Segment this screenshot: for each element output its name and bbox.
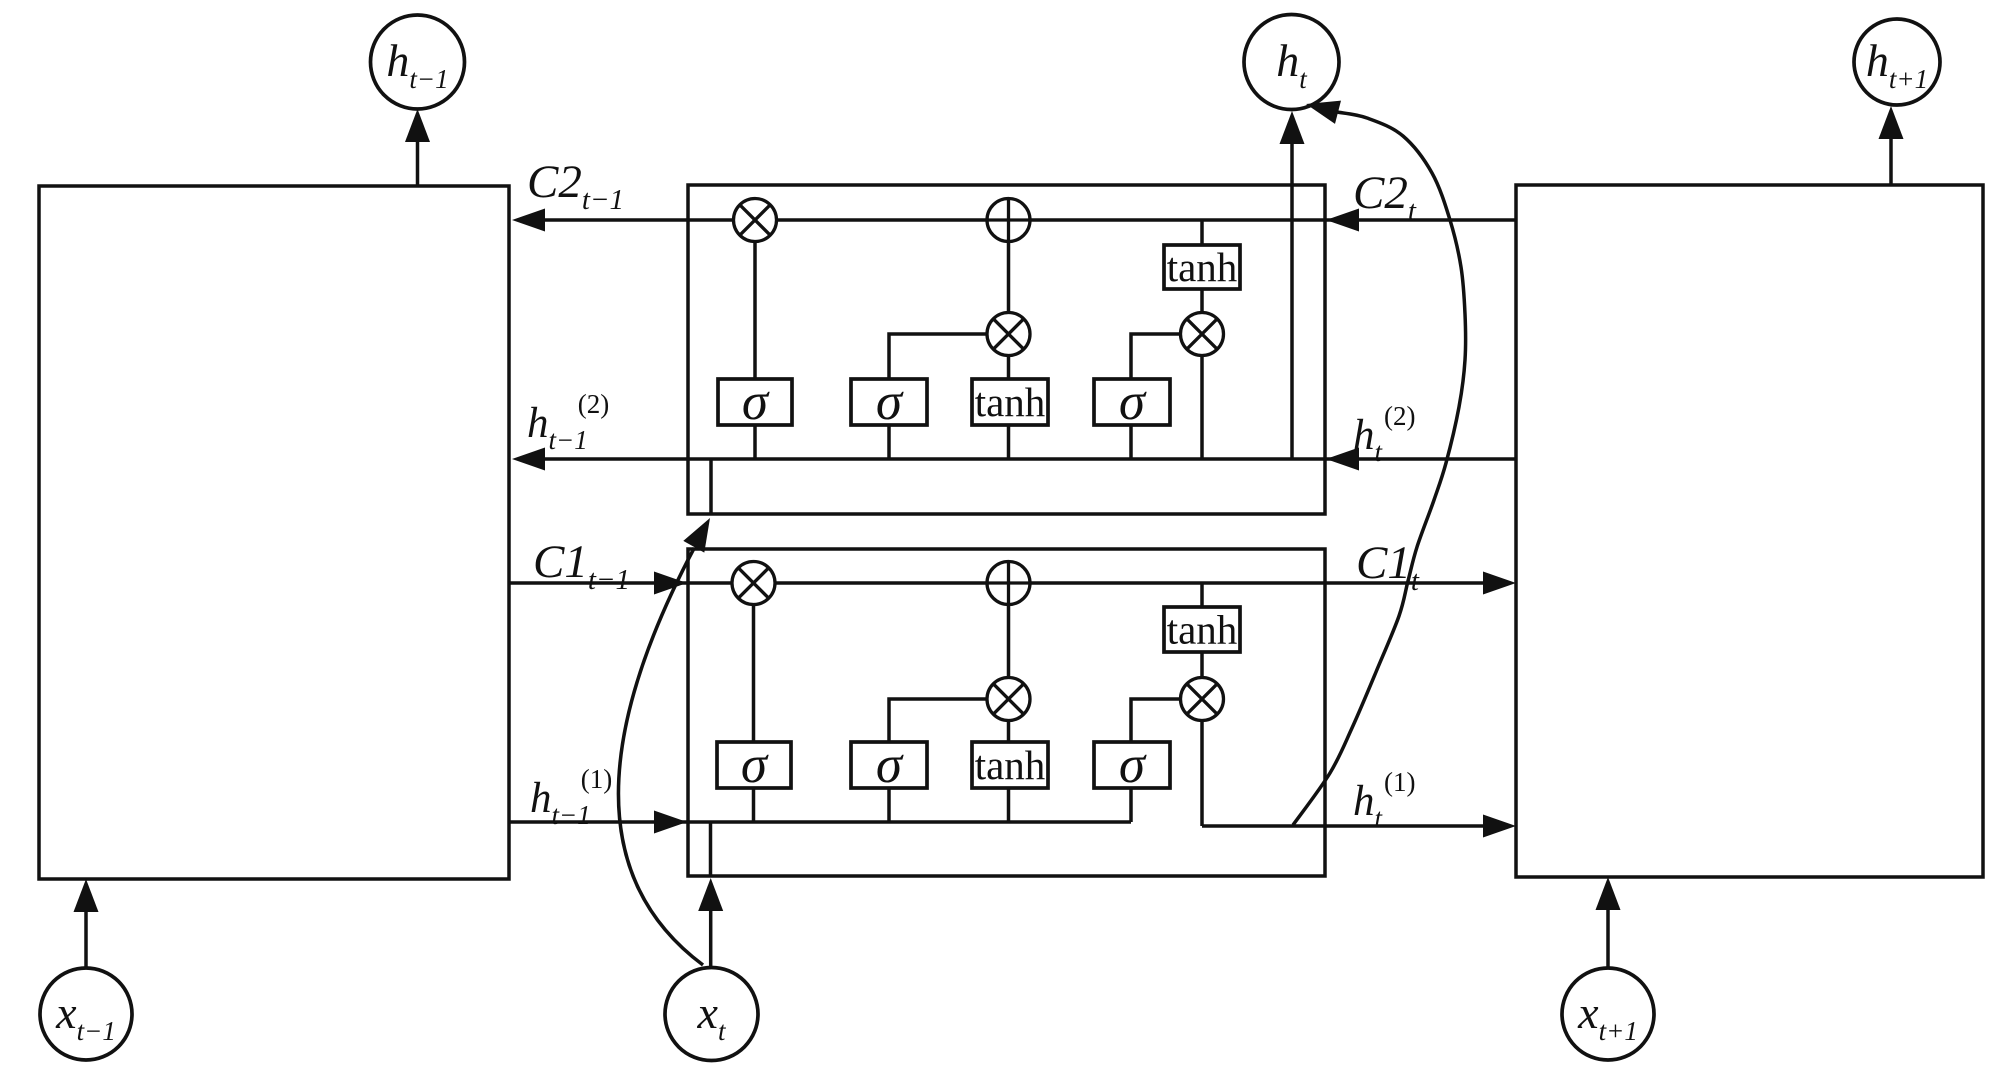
- arrowhead x_t-1 input: [74, 879, 99, 912]
- wire sigma-f1 down stub: [752, 788, 756, 822]
- LSTM layer-1 cell box (bottom center): [688, 549, 1325, 876]
- node x_t+1: [1562, 968, 1654, 1060]
- arrowhead h2 into left box: [512, 448, 545, 471]
- wire add2 to mult2: [1007, 242, 1011, 313]
- wire h_t output up to circle: [1290, 130, 1294, 459]
- wire x_t curved feed to layer 2: [618, 548, 703, 965]
- LSTM block t-1 (left box): [39, 186, 509, 879]
- arrowhead C1 into cell: [654, 572, 687, 595]
- arrowhead C2 into cell: [1326, 209, 1359, 232]
- arrowhead h1 into right box: [1483, 815, 1516, 838]
- LSTM layer-2 cell box (top center): [688, 185, 1325, 514]
- sigma forget-gate layer2: [718, 373, 792, 431]
- wire tanh1 up stub: [1007, 721, 1011, 743]
- sigma input-gate layer1: [851, 736, 927, 794]
- svg-text:σ: σ: [1119, 736, 1147, 794]
- mult output-gate layer2 (elementwise multiply): [1181, 313, 1224, 356]
- sigma output-gate layer2: [1094, 373, 1170, 431]
- wire sigma-i2 down stub: [887, 425, 891, 459]
- mult forget-gate layer2 (elementwise multiply): [734, 199, 777, 242]
- node x_t-1: [40, 968, 132, 1060]
- sigma forget-gate layer1: [717, 736, 791, 794]
- arrowhead h1 into cell: [654, 811, 687, 834]
- arrowhead h_t curved input: [1306, 101, 1341, 124]
- mult forget-gate layer1 (elementwise multiply): [732, 562, 775, 605]
- arrowhead C2 into left box: [512, 209, 545, 232]
- mult output-gate layer1 (elementwise multiply): [1181, 678, 1224, 721]
- wire C1 cell-state (bottom, left-to-right): [509, 581, 1510, 585]
- arrowhead h_t-1 output: [405, 109, 430, 142]
- wire sigma-o2 down stub: [1129, 425, 1133, 459]
- wire tanh-a1 to mult-o1: [1200, 652, 1204, 678]
- svg-text:C1t: C1t: [1356, 537, 1420, 597]
- add layer1 (elementwise add): [987, 562, 1030, 605]
- wire sigma-o1 down stub: [1129, 788, 1133, 822]
- arrowhead C1 into right box: [1483, 572, 1516, 595]
- wire C2 cell-state (top, right-to-left): [520, 218, 1516, 222]
- node h_t-1: [371, 15, 465, 109]
- LSTM block t+1 (right box): [1516, 185, 1983, 877]
- arrowhead h_t+1 output: [1879, 106, 1904, 139]
- wire h(2) hidden (top, right-to-left): [520, 457, 1516, 461]
- wire C1 to tanh-a1: [1200, 583, 1204, 607]
- svg-text:C2t: C2t: [1353, 167, 1417, 227]
- svg-text:tanh: tanh: [1167, 244, 1238, 290]
- svg-text:σ: σ: [741, 736, 769, 794]
- svg-text:tanh: tanh: [975, 379, 1046, 425]
- svg-text:tanh: tanh: [975, 742, 1046, 788]
- tanh box layer2 (cell output): [1164, 244, 1240, 290]
- wire mult-o2 down to h2 line: [1200, 356, 1204, 460]
- tanh box layer1 (candidate): [972, 742, 1048, 788]
- svg-text:tanh: tanh: [1167, 607, 1238, 653]
- svg-text:σ: σ: [876, 736, 904, 794]
- wire sigma-f1 up stub: [752, 605, 756, 743]
- wire sigma-o1 up elbow: [1131, 699, 1181, 742]
- wire sigma-i2 up elbow: [889, 334, 987, 379]
- arrowhead x_t input: [698, 878, 723, 911]
- wire sigma-f2 up stub: [753, 242, 757, 380]
- node x_t: [665, 968, 758, 1061]
- arrowhead x_t+1 input: [1596, 877, 1621, 910]
- wire h_t-1 output arrow line: [416, 135, 420, 186]
- wire x_t+1 input arrow line: [1606, 903, 1610, 968]
- svg-text:σ: σ: [876, 373, 904, 431]
- mult input-gate layer2 (elementwise multiply): [987, 313, 1030, 356]
- wire h(1) curved feed up to h_t: [1293, 112, 1466, 825]
- node h_t+1: [1854, 19, 1940, 105]
- sigma input-gate layer2: [851, 373, 927, 431]
- wire tanh-b1 down stub: [1007, 788, 1011, 822]
- wire h(1) input (bottom left): [509, 820, 1131, 824]
- wire h_t+1 output arrow line: [1889, 132, 1893, 185]
- arrowhead x_t curved feed: [683, 518, 710, 553]
- wire x_t-1 input arrow line: [84, 905, 88, 968]
- wire C2 to tanh-a2: [1200, 220, 1204, 245]
- add layer2 (elementwise add): [987, 199, 1030, 242]
- wire sigma-f2 down stub: [753, 425, 757, 459]
- wire x_t feed into layer 1: [709, 822, 713, 876]
- mult input-gate layer1 (elementwise multiply): [987, 678, 1030, 721]
- wire sigma-i1 up elbow: [889, 699, 987, 742]
- tanh box layer2 (candidate): [972, 379, 1048, 425]
- wire tanh-b2 down stub: [1007, 425, 1011, 459]
- wire h(1) output (bottom right): [1202, 824, 1510, 828]
- svg-text:σ: σ: [1119, 373, 1147, 431]
- wire tanh2 up stub: [1007, 356, 1011, 380]
- wire x_t feed into layer 2: [709, 459, 713, 514]
- wire add1 to mult1: [1007, 605, 1011, 678]
- wire sigma-i1 down stub: [887, 788, 891, 822]
- wire x_t input arrow line: [709, 902, 713, 967]
- arrowhead h_t straight output: [1280, 111, 1305, 144]
- tanh box layer1 (cell output): [1164, 607, 1240, 653]
- arrowhead h2 into cell: [1326, 448, 1359, 471]
- sigma output-gate layer1: [1094, 736, 1170, 794]
- wire tanh-a2 to mult-o2: [1200, 289, 1204, 313]
- svg-text:σ: σ: [742, 373, 770, 431]
- wire mult-o1 down to h1 out: [1200, 721, 1204, 827]
- wire sigma-o2 up elbow: [1131, 334, 1181, 379]
- node h_t: [1244, 15, 1339, 110]
